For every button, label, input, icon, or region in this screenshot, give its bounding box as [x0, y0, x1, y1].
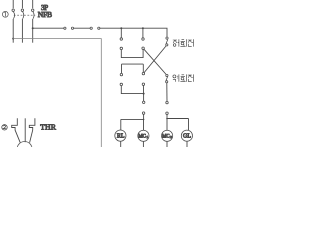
- node junction dot: [120, 27, 122, 29]
- contactor MC-R contact (reverse): [166, 74, 168, 83]
- contact terminal circle: [142, 38, 144, 40]
- wire riser T-branch to MC2 and GL: [167, 114, 189, 130]
- wire line A segment 1: [33, 27, 64, 29]
- wire THR middle phase: [24, 118, 26, 142]
- wire diagonal to reverse contact: [144, 49, 166, 74]
- node junction dot on pole 1: [12, 38, 14, 40]
- wire L-bridge from bank2 left bottom to column 2: [121, 86, 143, 94]
- svg-text:THR: THR: [40, 123, 56, 132]
- svg-text:MC: MC: [162, 135, 170, 140]
- svg-text:GL: GL: [183, 134, 191, 140]
- node junction dot: [142, 27, 144, 29]
- node junction dot: [166, 118, 168, 120]
- node junction dot: [143, 93, 145, 95]
- contact terminal circle: [98, 27, 100, 29]
- contact terminal circle: [120, 73, 122, 75]
- contact terminal circle: [120, 47, 122, 49]
- contactor MC-F contact (forward): [166, 37, 168, 46]
- node T-junction on pole 3: [32, 27, 34, 29]
- svg-text:NFB: NFB: [38, 10, 52, 19]
- terminal circle pair column 2: [143, 101, 145, 103]
- terminal circle pair column 3: [166, 101, 168, 103]
- thermal relay THR heater 1: [12, 118, 21, 142]
- wire column 2 down to terminal: [142, 85, 144, 101]
- wire line A segment 3 with corner down to MC-F contact: [100, 28, 167, 37]
- wire U-bridge between bank1 contact bottoms: [121, 49, 143, 57]
- label circled 2: [2, 125, 7, 130]
- wire line B from pole 1, corner down to bottom edge: [13, 39, 101, 147]
- contact terminal circle: [142, 83, 144, 85]
- wire from reverse contact down to terminal: [166, 83, 168, 101]
- label reverse rotation (Hangul 역회전): [173, 74, 194, 81]
- contact terminal circle: [71, 27, 73, 29]
- lamp RL: [115, 130, 126, 147]
- wire drop column 1 from line A: [120, 28, 122, 38]
- contact terminal circle: [90, 27, 92, 29]
- breaker NFB pole 1: [12, 0, 15, 43]
- lamp GL: [181, 130, 192, 147]
- contact terminal circle: [64, 27, 66, 29]
- coil MC1: [138, 130, 149, 147]
- contact terminal circle: [142, 47, 144, 49]
- wire diagonal from forward contact crossing to bank2: [144, 46, 166, 72]
- breaker NFB pole 3: [32, 0, 35, 43]
- svg-text:RL: RL: [117, 134, 125, 140]
- svg-text:MC: MC: [138, 135, 146, 140]
- contact terminal circle: [142, 72, 144, 74]
- wire line A segment 2: [74, 27, 91, 29]
- contact terminal circle: [120, 83, 122, 85]
- wire drop column 2 from line A: [142, 28, 144, 38]
- label circled 1: [2, 11, 8, 17]
- contact terminal circle: [120, 38, 122, 40]
- thermal relay THR heater 2: [29, 118, 35, 142]
- motor circle (cut by bottom edge): [17, 142, 32, 157]
- wire riser T-branch to RL and MC1: [121, 114, 144, 130]
- coil MC2: [162, 130, 173, 147]
- svg-text:2: 2: [170, 135, 172, 139]
- label forward rotation (Hangul 정회전): [173, 39, 194, 46]
- wire bridge over bank2 contact tops: [122, 64, 144, 73]
- svg-text:1: 1: [146, 135, 148, 139]
- label 3P NFB: [38, 4, 52, 19]
- breaker NFB pole 2: [21, 0, 24, 43]
- breaker mechanical link (dashed): [14, 14, 35, 16]
- node junction dot: [143, 119, 145, 121]
